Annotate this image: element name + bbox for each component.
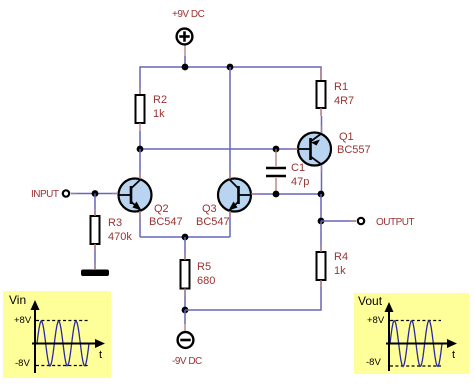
junction node: input/R3 — [92, 190, 99, 197]
svg-text:47p: 47p — [291, 176, 309, 188]
wire: Q2 collector branch — [139, 149, 141, 179]
svg-text:R3: R3 — [108, 217, 122, 229]
pin: INPUT terminal — [71, 193, 77, 195]
pin: Q1 base — [291, 148, 298, 150]
resistor R2 — [136, 95, 145, 123]
svg-text:t: t — [99, 349, 102, 361]
wire: base line node A to Q1 base — [140, 148, 298, 150]
resistor R4 — [317, 252, 326, 280]
pin: Q3 emitter — [229, 211, 231, 218]
wire: R3 top branch — [94, 194, 96, 217]
junction node: Q3 collector branch on rail — [227, 64, 234, 71]
pin: Q2 collector — [139, 172, 141, 179]
wire: R5 bottom to bottom rail — [184, 289, 186, 311]
pin: R5 top — [184, 253, 186, 260]
junction node: emitters to R5 — [182, 234, 189, 241]
svg-text:-9V DC: -9V DC — [172, 356, 202, 367]
dashed +8V level — [390, 320, 441, 322]
dashed -8V level — [390, 365, 441, 367]
svg-text:1k: 1k — [334, 265, 346, 277]
svg-text:+8V: +8V — [367, 315, 385, 326]
junction node: +9V feed on rail — [182, 64, 189, 71]
pin: Q2 base — [112, 193, 118, 195]
pin: R2 top — [139, 88, 141, 96]
pin: C1 top — [275, 149, 277, 166]
wire: Q3 base line to Q1 collector line — [252, 193, 321, 195]
ground — [81, 270, 109, 277]
capacitor C1 — [266, 168, 286, 176]
pin: Q2 emitter — [139, 211, 141, 218]
svg-text:Vin: Vin — [9, 293, 26, 307]
junction node: Q1 collector / Q3 base line — [318, 191, 325, 198]
pin: C1 bottom — [275, 178, 277, 194]
svg-text:-8V: -8V — [15, 358, 30, 369]
svg-text:R4: R4 — [334, 251, 348, 263]
wire: Q3 collector branch from rail — [229, 67, 231, 179]
wire: bottom rail to R4 — [185, 280, 321, 310]
svg-text:4R7: 4R7 — [334, 95, 354, 107]
Vout sine wave — [390, 321, 442, 367]
dashed -8V level — [36, 365, 89, 367]
svg-text:Q3: Q3 — [202, 203, 217, 215]
pin: R4 bottom — [320, 280, 322, 287]
battery positive terminal +9V source — [177, 29, 193, 45]
svg-text:Vout: Vout — [358, 294, 383, 308]
svg-text:R5: R5 — [197, 261, 211, 273]
transistor Q1 (PNP BC557) — [298, 133, 331, 166]
pin: ground — [94, 263, 96, 270]
wire: emitter rail — [140, 236, 230, 238]
wire: input to Q2 base — [71, 193, 118, 195]
wire: +9V feed to top rail — [184, 56, 186, 67]
INPUT terminal — [63, 190, 69, 196]
pin: R2 bottom — [139, 123, 141, 131]
pin: R1 bottom — [320, 108, 322, 115]
junction node: bottom rail / -9V — [182, 307, 189, 314]
wire: Q1 collector down — [321, 165, 323, 194]
svg-text:Q1: Q1 — [339, 131, 354, 143]
junction node A (R2/Q2 collector/Q1 base) — [137, 146, 144, 153]
pin: R1 top — [320, 68, 322, 81]
transistor Q3 (NPN BC547, mirrored) — [218, 179, 251, 212]
wire: R5 top branch — [184, 237, 186, 260]
Vin waveform panel — [3, 291, 111, 378]
wire: R3 bottom to ground — [94, 244, 96, 270]
Vin horizontal axis — [32, 343, 98, 345]
transistor Q2 (NPN BC547) — [119, 179, 152, 212]
pin: Q1 emitter — [321, 126, 323, 133]
wire: collector node to output node — [320, 194, 322, 221]
pin: +9V source to rail — [184, 46, 186, 57]
pin: R4 top — [320, 245, 322, 252]
pin: R3 top — [94, 209, 96, 216]
resistor R5 — [181, 260, 190, 289]
wire: output stub — [321, 220, 356, 222]
junction node: C1 top on Q1 base line — [273, 146, 280, 153]
junction node: C1 bottom on Q3 base line — [273, 191, 280, 198]
dashed +8V level — [36, 320, 89, 322]
Vout waveform panel — [354, 293, 469, 374]
pin: Q1 collector — [321, 165, 323, 172]
svg-text:t: t — [452, 349, 455, 361]
pin: Q3 collector — [229, 172, 231, 179]
wire: R2 bottom to node A — [139, 131, 141, 149]
wire: Q3 emitter down — [229, 211, 231, 237]
svg-text:R1: R1 — [334, 81, 348, 93]
svg-text:+9V DC: +9V DC — [172, 9, 205, 20]
svg-text:470k: 470k — [108, 231, 132, 243]
Vout vertical axis — [388, 308, 390, 371]
pin: OUTPUT terminal — [350, 220, 356, 222]
svg-text:BC557: BC557 — [337, 144, 371, 156]
pin: R5 bottom — [184, 289, 186, 297]
resistor R1 — [317, 81, 326, 108]
wire: R1 to Q1 emitter — [321, 116, 323, 133]
Vout horizontal axis — [386, 343, 450, 345]
svg-text:INPUT: INPUT — [31, 189, 59, 200]
svg-text:680: 680 — [197, 275, 215, 287]
junction node: output — [318, 218, 325, 225]
svg-text:-8V: -8V — [366, 357, 381, 368]
Vin sine wave — [37, 321, 89, 366]
pin: R1 bottom to Q1 emitter — [320, 108, 322, 116]
svg-text:BC547: BC547 — [196, 216, 230, 228]
battery negative terminal -9V source — [178, 332, 194, 348]
svg-text:R2: R2 — [153, 94, 167, 106]
svg-text:1k: 1k — [153, 108, 165, 120]
wire: output node to R4 — [320, 221, 322, 252]
svg-text:C1: C1 — [291, 162, 305, 174]
wire: top supply rail — [140, 67, 321, 95]
pin: -9V source top — [184, 324, 186, 331]
wire: Q2 emitter down — [139, 211, 141, 237]
svg-text:Q2: Q2 — [154, 203, 169, 215]
svg-text:OUTPUT: OUTPUT — [376, 217, 415, 228]
Vin vertical axis — [34, 306, 36, 373]
svg-text:+8V: +8V — [14, 315, 32, 326]
resistor R3 — [91, 216, 100, 244]
OUTPUT terminal — [358, 218, 364, 224]
svg-text:BC547: BC547 — [149, 216, 183, 228]
wire: -9V stub — [184, 310, 186, 324]
pin: R3 bottom — [94, 244, 96, 251]
pin: Q3 base — [251, 193, 258, 195]
